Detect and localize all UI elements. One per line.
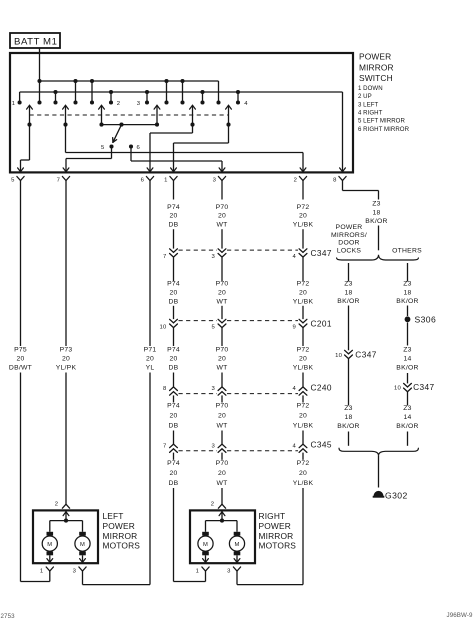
svg-text:1: 1	[196, 568, 200, 574]
svg-text:BATT M1: BATT M1	[14, 37, 57, 48]
svg-text:POWER: POWER	[103, 521, 135, 531]
svg-text:20: 20	[169, 213, 177, 220]
svg-text:1: 1	[40, 568, 44, 574]
svg-text:6: 6	[137, 145, 141, 151]
svg-text:C347: C347	[413, 382, 434, 392]
svg-text:14: 14	[403, 356, 411, 363]
svg-text:MIRROR: MIRROR	[103, 531, 138, 541]
svg-text:20: 20	[169, 413, 177, 420]
svg-text:YL/BK: YL/BK	[293, 365, 314, 372]
svg-text:BK/OR: BK/OR	[365, 218, 387, 225]
svg-text:6: 6	[141, 178, 145, 184]
svg-text:5: 5	[101, 145, 105, 151]
svg-text:DB/WT: DB/WT	[9, 365, 32, 372]
svg-text:Z3: Z3	[344, 280, 352, 287]
svg-text:MOTORS: MOTORS	[259, 541, 297, 551]
svg-text:M: M	[47, 542, 52, 548]
svg-text:20: 20	[299, 356, 307, 363]
svg-text:5 LEFT MIRROR: 5 LEFT MIRROR	[358, 118, 405, 125]
svg-text:P72: P72	[297, 460, 310, 467]
svg-text:WT: WT	[216, 423, 227, 430]
svg-text:P72: P72	[297, 402, 310, 409]
svg-text:MOTORS: MOTORS	[103, 541, 141, 551]
svg-text:YL/BK: YL/BK	[293, 423, 314, 430]
svg-text:P74: P74	[167, 402, 180, 409]
svg-text:P70: P70	[216, 402, 229, 409]
svg-text:9: 9	[292, 325, 296, 331]
svg-text:7: 7	[163, 443, 167, 449]
svg-text:WT: WT	[216, 480, 227, 487]
svg-text:YL/BK: YL/BK	[293, 480, 314, 487]
svg-text:YL/BK: YL/BK	[293, 222, 314, 229]
svg-text:BK/OR: BK/OR	[396, 423, 418, 430]
svg-text:3: 3	[137, 101, 141, 107]
svg-text:5: 5	[11, 178, 15, 184]
svg-text:7: 7	[57, 178, 61, 184]
svg-text:DB: DB	[169, 222, 179, 229]
svg-text:20: 20	[218, 470, 226, 477]
svg-text:YL/PK: YL/PK	[56, 365, 77, 372]
svg-text:20: 20	[218, 413, 226, 420]
svg-text:C345: C345	[311, 440, 332, 450]
svg-text:BK/OR: BK/OR	[396, 365, 418, 372]
svg-text:LOCKS: LOCKS	[337, 247, 362, 254]
svg-text:C347: C347	[355, 350, 376, 360]
svg-text:P70: P70	[216, 460, 229, 467]
svg-text:1: 1	[12, 101, 16, 107]
svg-text:18: 18	[344, 289, 352, 296]
svg-text:20: 20	[299, 213, 307, 220]
svg-text:18: 18	[344, 414, 352, 421]
svg-text:2: 2	[117, 101, 121, 107]
svg-text:3: 3	[227, 568, 231, 574]
svg-text:P72: P72	[297, 347, 310, 354]
svg-text:DB: DB	[169, 480, 179, 487]
svg-text:OTHERS: OTHERS	[392, 247, 422, 254]
svg-text:MIRRORS/: MIRRORS/	[331, 232, 367, 239]
svg-text:8: 8	[333, 178, 337, 184]
svg-text:M: M	[80, 542, 85, 548]
svg-text:M: M	[203, 542, 208, 548]
svg-text:P74: P74	[167, 281, 180, 288]
svg-text:M: M	[234, 542, 239, 548]
svg-text:20: 20	[299, 290, 307, 297]
svg-text:WT: WT	[216, 365, 227, 372]
svg-text:DB: DB	[169, 365, 179, 372]
svg-text:5: 5	[211, 325, 215, 331]
svg-text:4: 4	[244, 101, 248, 107]
svg-text:1: 1	[164, 178, 168, 184]
svg-text:20: 20	[299, 470, 307, 477]
svg-text:7: 7	[163, 254, 167, 260]
svg-text:Z3: Z3	[403, 405, 411, 412]
svg-text:20: 20	[146, 356, 154, 363]
svg-text:20: 20	[169, 290, 177, 297]
svg-text:3 LEFT: 3 LEFT	[358, 101, 379, 108]
svg-text:RIGHT: RIGHT	[259, 511, 286, 521]
svg-text:10: 10	[394, 386, 402, 392]
svg-text:2753: 2753	[1, 613, 16, 619]
svg-text:3: 3	[211, 443, 215, 449]
svg-text:G302: G302	[385, 491, 408, 501]
svg-text:MIRROR: MIRROR	[259, 531, 294, 541]
svg-text:DOOR: DOOR	[338, 240, 359, 247]
svg-text:3: 3	[211, 254, 215, 260]
svg-text:20: 20	[218, 290, 226, 297]
svg-text:P74: P74	[167, 460, 180, 467]
svg-text:BK/OR: BK/OR	[396, 298, 418, 305]
svg-text:P70: P70	[216, 204, 229, 211]
svg-text:POWER: POWER	[336, 224, 363, 231]
svg-text:P72: P72	[297, 204, 310, 211]
svg-text:POWER: POWER	[259, 521, 291, 531]
svg-text:6 RIGHT MIRROR: 6 RIGHT MIRROR	[358, 126, 410, 133]
svg-text:10: 10	[335, 353, 343, 359]
svg-text:Z3: Z3	[344, 405, 352, 412]
svg-text:C201: C201	[311, 319, 332, 329]
svg-text:P73: P73	[60, 347, 73, 354]
svg-text:20: 20	[169, 356, 177, 363]
svg-text:4: 4	[292, 386, 296, 392]
svg-text:3: 3	[211, 386, 215, 392]
svg-text:8: 8	[163, 386, 167, 392]
svg-text:P74: P74	[167, 347, 180, 354]
svg-text:Z3: Z3	[403, 347, 411, 354]
svg-text:3: 3	[73, 568, 77, 574]
svg-text:P71: P71	[144, 347, 157, 354]
svg-text:20: 20	[62, 356, 70, 363]
svg-text:POWER: POWER	[359, 51, 391, 61]
svg-text:20: 20	[218, 213, 226, 220]
svg-text:SWITCH: SWITCH	[359, 73, 393, 83]
svg-text:P72: P72	[297, 281, 310, 288]
svg-text:14: 14	[403, 414, 411, 421]
svg-text:MIRROR: MIRROR	[359, 62, 394, 72]
svg-text:20: 20	[218, 356, 226, 363]
svg-text:1 DOWN: 1 DOWN	[358, 85, 383, 92]
svg-text:10: 10	[159, 325, 167, 331]
svg-text:20: 20	[169, 470, 177, 477]
svg-text:YL: YL	[146, 365, 155, 372]
svg-text:WT: WT	[216, 222, 227, 229]
svg-text:2: 2	[211, 502, 215, 508]
svg-text:18: 18	[372, 209, 380, 216]
svg-text:18: 18	[403, 289, 411, 296]
svg-text:Z3: Z3	[403, 280, 411, 287]
svg-text:WT: WT	[216, 299, 227, 306]
svg-text:2: 2	[55, 502, 59, 508]
svg-text:2: 2	[294, 178, 298, 184]
svg-text:P70: P70	[216, 347, 229, 354]
svg-text:DB: DB	[169, 423, 179, 430]
svg-text:20: 20	[16, 356, 24, 363]
svg-text:BK/OR: BK/OR	[337, 423, 359, 430]
svg-text:20: 20	[299, 413, 307, 420]
svg-text:4 RIGHT: 4 RIGHT	[358, 109, 383, 116]
svg-text:J96BW-9: J96BW-9	[447, 612, 473, 619]
svg-text:DB: DB	[169, 299, 179, 306]
svg-text:4: 4	[292, 443, 296, 449]
svg-text:2 UP: 2 UP	[358, 93, 372, 100]
svg-text:4: 4	[292, 254, 296, 260]
svg-text:P75: P75	[14, 347, 27, 354]
svg-text:P70: P70	[216, 281, 229, 288]
svg-text:S306: S306	[415, 315, 437, 325]
svg-text:C347: C347	[311, 248, 332, 258]
svg-text:YL/BK: YL/BK	[293, 299, 314, 306]
svg-text:P74: P74	[167, 204, 180, 211]
svg-text:Z3: Z3	[372, 201, 380, 208]
svg-text:LEFT: LEFT	[103, 511, 124, 521]
svg-text:BK/OR: BK/OR	[337, 298, 359, 305]
svg-text:3: 3	[213, 178, 217, 184]
svg-text:C240: C240	[311, 382, 332, 392]
